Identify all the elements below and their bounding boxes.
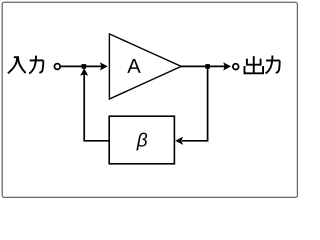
label β: [136, 133, 147, 151]
op-amp A amplifier triangle: [109, 34, 181, 99]
arrow into amplifier: [100, 62, 108, 70]
wire feedback block to input node: [80, 68, 109, 141]
input terminal circle: [54, 64, 60, 70]
junction node output: [205, 64, 210, 69]
wire amplifier output: [181, 65, 226, 67]
junction node input: [82, 64, 87, 69]
arrow into output terminal: [223, 62, 231, 70]
output terminal circle: [233, 64, 239, 70]
input label 入力: [8, 56, 43, 74]
wire output node to feedback block: [175, 67, 207, 145]
wire input to summing node: [61, 65, 102, 67]
output label 出力: [245, 56, 280, 74]
feedback block β box: [109, 116, 174, 164]
label A: [127, 59, 140, 73]
